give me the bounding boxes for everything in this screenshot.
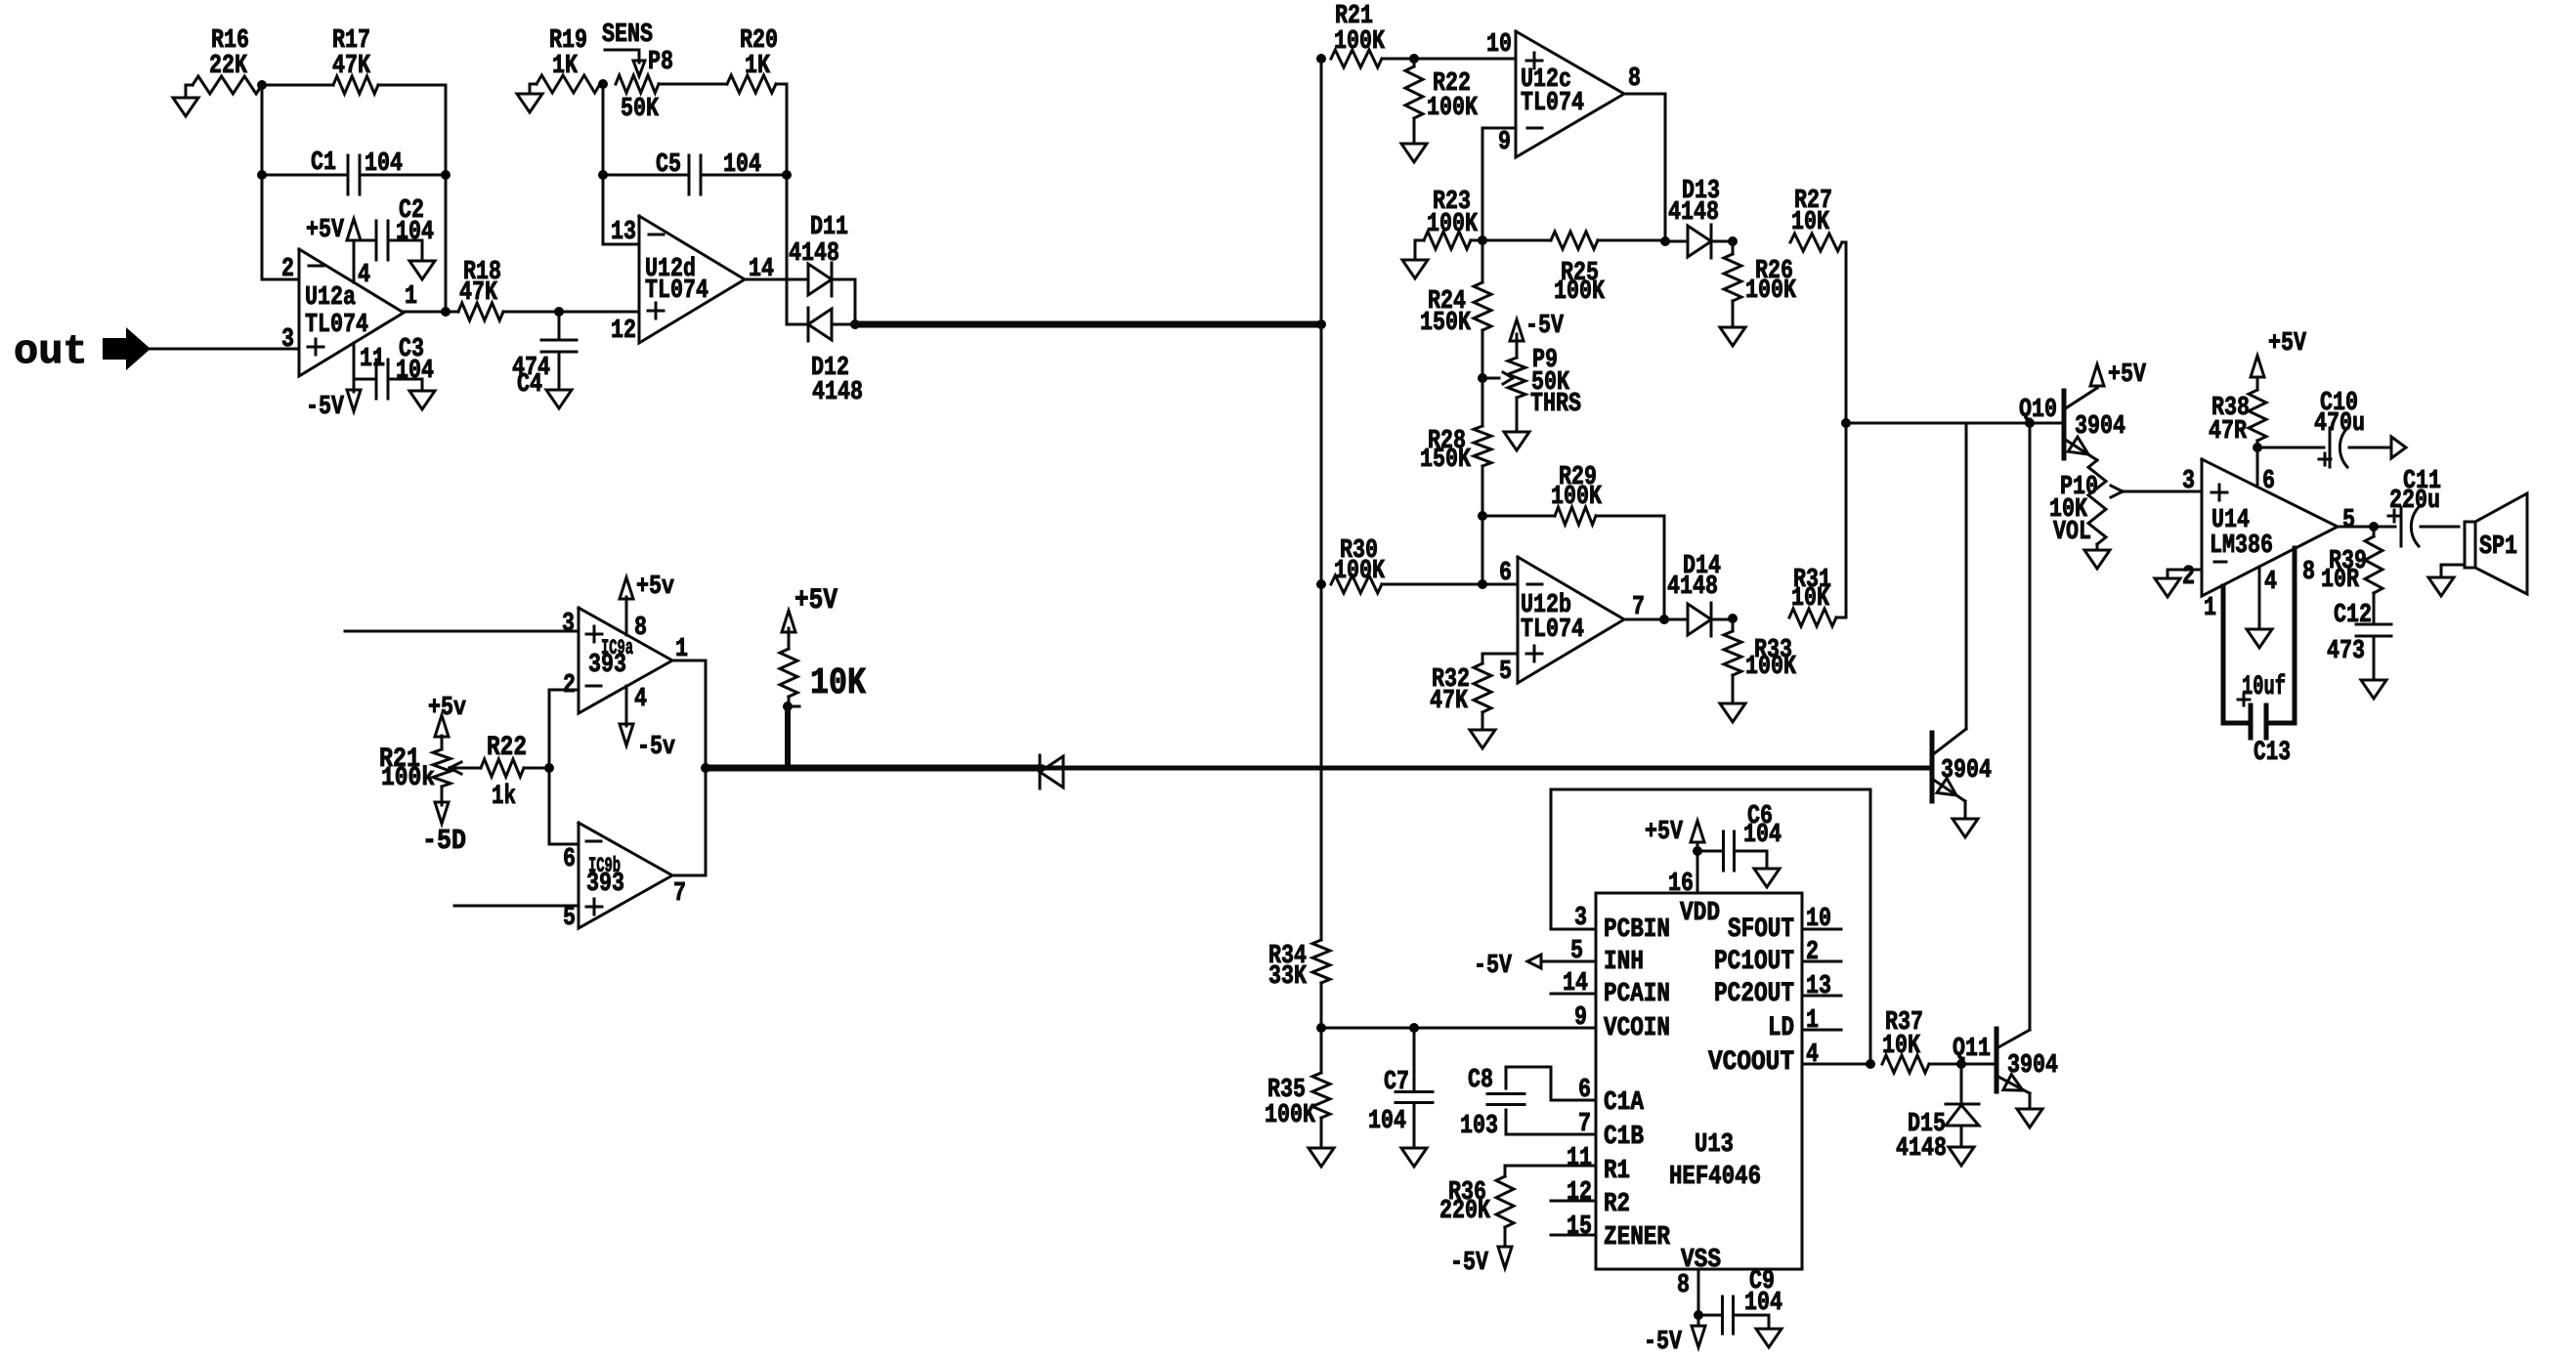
svg-text:2: 2 <box>281 255 294 284</box>
svg-text:100K: 100K <box>1745 277 1797 306</box>
svg-text:VCOOUT: VCOOUT <box>1708 1047 1794 1078</box>
wire U12c output <box>1624 94 1665 241</box>
svg-text:HEF4046: HEF4046 <box>1669 1163 1761 1192</box>
pin 2 PC1OUT stub <box>1802 938 1841 967</box>
svg-text:100K: 100K <box>1265 1101 1316 1130</box>
svg-text:13: 13 <box>611 218 636 247</box>
pin 6 C1A hook <box>1506 1067 1596 1105</box>
svg-text:7: 7 <box>1578 1110 1591 1139</box>
wire R16/R17 node <box>257 80 333 90</box>
node D13/R26/R27 <box>1728 236 1738 246</box>
ground at C4 <box>546 390 572 408</box>
svg-text:-5v: -5v <box>637 733 675 762</box>
capacitor C4 <box>512 312 577 400</box>
svg-text:-5D: -5D <box>422 825 466 857</box>
svg-text:11: 11 <box>360 345 385 374</box>
svg-text:33K: 33K <box>1268 962 1308 992</box>
ground at R33 <box>1720 703 1745 722</box>
svg-text:TL074: TL074 <box>1521 89 1584 118</box>
node D13 anode <box>1660 236 1670 246</box>
capacitor C6 <box>1697 802 1782 871</box>
svg-text:SP1: SP1 <box>2479 532 2517 562</box>
svg-text:10uf: 10uf <box>2242 672 2286 702</box>
svg-text:10K: 10K <box>1791 208 1830 237</box>
wire PCBIN feed line <box>1551 789 1870 1064</box>
svg-text:3: 3 <box>562 610 575 639</box>
svg-text:5: 5 <box>2342 506 2355 535</box>
svg-text:+5V: +5V <box>794 584 837 617</box>
node VCOOUT/R37 <box>1866 1059 1875 1069</box>
node VSS <box>1694 1310 1703 1320</box>
pin 5 INH stub <box>1541 937 1596 966</box>
svg-text:Q10: Q10 <box>2019 396 2057 425</box>
wire U14 output pin5 <box>2338 522 2395 532</box>
svg-text:103: 103 <box>1460 1112 1498 1141</box>
wire IC9a pin2 to pin6 <box>549 690 579 844</box>
svg-text:6: 6 <box>1578 1076 1591 1105</box>
ground at R35 <box>1309 1148 1334 1167</box>
ground at R23 <box>1402 260 1428 278</box>
resistor R32 <box>1430 654 1518 730</box>
pin 3 stub <box>1551 904 1596 933</box>
svg-text:D11: D11 <box>810 213 848 242</box>
+5v at IC9a <box>620 573 674 635</box>
resistor R30 <box>1316 536 1518 593</box>
ground at SP1 <box>2428 565 2465 596</box>
svg-text:TL074: TL074 <box>305 311 368 340</box>
-5V at INH <box>1474 952 1541 981</box>
svg-text:100K: 100K <box>1334 557 1386 586</box>
svg-text:104: 104 <box>1744 1289 1782 1318</box>
svg-text:10R: 10R <box>2321 566 2360 595</box>
diode D12 <box>787 308 863 407</box>
svg-text:16: 16 <box>1668 870 1694 899</box>
node comparator output <box>701 763 710 773</box>
svg-text:220u: 220u <box>2389 487 2440 516</box>
svg-text:14: 14 <box>1563 969 1588 999</box>
potentiometer R21 (100k) <box>379 736 451 805</box>
svg-text:PCBIN: PCBIN <box>1604 915 1670 945</box>
svg-text:THRS: THRS <box>1530 390 1581 419</box>
svg-text:473: 473 <box>2327 637 2365 666</box>
svg-text:10K: 10K <box>1791 584 1830 614</box>
diode D11 <box>789 213 855 324</box>
node R23/R25 <box>1471 235 1487 245</box>
pin 10 SFOUT stub <box>1802 905 1841 934</box>
wire Q11 emitter ground <box>2029 1093 2032 1109</box>
svg-text:VDD: VDD <box>1680 899 1720 928</box>
ground at R22b <box>1401 144 1427 162</box>
svg-text:C1: C1 <box>311 149 336 178</box>
svg-text:8: 8 <box>1677 1271 1690 1300</box>
svg-text:10: 10 <box>1806 905 1831 934</box>
svg-text:2: 2 <box>2182 563 2195 592</box>
transistor Q11 <box>1953 1029 2058 1093</box>
resistor R17 <box>332 26 378 94</box>
resistor R33 <box>1724 619 1797 703</box>
svg-text:104: 104 <box>723 150 761 180</box>
ground at P10 <box>2084 550 2110 569</box>
svg-text:SENS: SENS <box>602 21 653 50</box>
svg-text:4: 4 <box>358 261 370 290</box>
svg-text:C7: C7 <box>1384 1068 1409 1097</box>
ground at C9 <box>1756 1329 1782 1347</box>
svg-text:R2: R2 <box>1604 1190 1630 1219</box>
svg-text:4148: 4148 <box>812 378 863 407</box>
+5V at R38 <box>2251 329 2307 377</box>
node R28/R29 <box>1478 511 1487 521</box>
resistor R18 <box>458 258 503 320</box>
node P9 wiper <box>1478 373 1487 383</box>
svg-text:5: 5 <box>563 904 576 933</box>
svg-text:TL074: TL074 <box>645 277 708 306</box>
wire U12b output <box>1624 615 1669 624</box>
diode D14 <box>1664 552 1733 636</box>
svg-text:5: 5 <box>1570 937 1583 966</box>
wire U12a pin11 -5V <box>353 343 356 392</box>
pin 11 R1 stub <box>1505 1144 1596 1173</box>
wire P10 wiper to U14 pin3 <box>2123 490 2202 493</box>
op-amp U14 <box>2182 459 2355 623</box>
wire U14 pin4 ground <box>2258 567 2261 629</box>
svg-text:220K: 220K <box>1439 1197 1491 1226</box>
resistor R21b 100K <box>1331 2 1386 67</box>
ground at C3 <box>409 391 435 409</box>
resistor R38 <box>2209 379 2266 447</box>
wire U12d pin12 <box>559 311 639 314</box>
comparator IC9a <box>562 608 688 714</box>
svg-text:104: 104 <box>396 218 434 247</box>
svg-text:-5V: -5V <box>1474 952 1513 981</box>
svg-text:1k: 1k <box>492 782 516 812</box>
svg-text:104: 104 <box>1368 1107 1406 1136</box>
svg-text:150K: 150K <box>1420 309 1472 338</box>
svg-text:393: 393 <box>588 651 626 680</box>
wire U12d output <box>745 278 808 281</box>
pin 7 C1B hook <box>1506 1110 1596 1139</box>
svg-text:C1A: C1A <box>1604 1088 1645 1118</box>
pull-up resistor 10K <box>780 628 866 706</box>
capacitor C11 <box>2388 467 2459 546</box>
svg-text:R22: R22 <box>487 733 527 763</box>
node VCOIN tap <box>1316 983 1326 1073</box>
resistor R26 <box>1724 241 1797 327</box>
resistor R39 <box>2321 527 2383 595</box>
svg-text:470u: 470u <box>2314 409 2365 439</box>
svg-text:100K: 100K <box>1745 653 1797 682</box>
svg-text:104: 104 <box>365 149 403 179</box>
potentiometer P10 <box>2049 460 2123 550</box>
svg-text:11: 11 <box>1567 1144 1592 1173</box>
svg-text:6: 6 <box>1499 559 1512 588</box>
svg-text:SFOUT: SFOUT <box>1728 915 1794 945</box>
svg-text:47R: 47R <box>2209 417 2248 447</box>
svg-text:1K: 1K <box>552 52 579 81</box>
op-amp U12d <box>611 216 774 346</box>
transistor Q mid 3904 <box>1932 729 1992 801</box>
node Q11 base <box>1956 1059 1996 1069</box>
pin 12 R2 stub <box>1551 1178 1596 1208</box>
ground at R19 <box>517 84 542 112</box>
svg-text:47K: 47K <box>332 52 371 81</box>
wire rectified signal bus (thick) <box>855 319 1326 329</box>
pin 16 VDD stub <box>1668 851 1697 899</box>
wire main left bus vertical <box>1320 59 1323 940</box>
resistor R22b 100K <box>1405 59 1479 144</box>
wire U14 pin2 ground <box>2168 570 2202 578</box>
pin 4 VCOOUT stub <box>1802 1041 1870 1070</box>
wire divider chain R24 <box>1481 240 1484 282</box>
svg-text:7: 7 <box>673 879 686 909</box>
+5v at R21 <box>428 694 466 737</box>
op-amp U12b <box>1499 557 1645 687</box>
svg-text:50K: 50K <box>621 95 660 124</box>
capacitor C1 <box>257 149 451 194</box>
+5V at VDD <box>1645 818 1704 851</box>
resistor R36 <box>1439 1166 1514 1247</box>
wire U12a output node <box>404 307 458 317</box>
svg-text:100K: 100K <box>1334 27 1386 57</box>
svg-text:8: 8 <box>2302 558 2315 587</box>
svg-text:C1B: C1B <box>1604 1123 1644 1152</box>
-5V at VSS <box>1644 1315 1705 1357</box>
speaker SP1 <box>2465 493 2527 594</box>
wire input to IC9b pin5 <box>454 905 579 908</box>
capacitor C2 <box>354 196 434 261</box>
svg-text:2: 2 <box>1806 938 1819 967</box>
capacitor C13 gain loop <box>2223 548 2295 768</box>
resistor R28 <box>1420 378 1491 584</box>
svg-text:4148: 4148 <box>1896 1134 1947 1164</box>
svg-text:3: 3 <box>1574 904 1587 933</box>
resistor R37 <box>1882 1008 1961 1073</box>
capacitor C9 <box>1698 1267 1782 1334</box>
node R19/P8 <box>598 79 608 89</box>
svg-text:R1: R1 <box>1604 1157 1630 1186</box>
potentiometer P8 <box>602 21 673 124</box>
wire comparator output bus (thick) <box>706 765 1932 772</box>
comparator IC9b <box>563 823 686 933</box>
svg-text:U13: U13 <box>1695 1130 1734 1160</box>
svg-text:100k: 100k <box>381 764 435 793</box>
svg-text:9: 9 <box>1574 1003 1587 1033</box>
wire out to U12a pin3 <box>149 348 299 351</box>
node pull-up to bus <box>783 702 799 768</box>
node D14/R33/R31 <box>1728 614 1738 623</box>
svg-text:+5v: +5v <box>636 573 674 602</box>
svg-text:4: 4 <box>1806 1041 1819 1070</box>
svg-text:-5V: -5V <box>1525 312 1565 341</box>
svg-text:47K: 47K <box>459 278 498 308</box>
svg-text:3: 3 <box>281 325 294 355</box>
resistor R35 <box>1265 1073 1330 1148</box>
ground at U14 pin4 <box>2247 629 2272 648</box>
diode D13 <box>1665 177 1733 258</box>
-5D at R21 <box>422 802 466 857</box>
svg-text:100K: 100K <box>1427 210 1479 239</box>
svg-text:-5V: -5V <box>1644 1328 1683 1357</box>
wire R17 to output node <box>378 85 446 312</box>
wire R20 right vertical <box>776 84 787 324</box>
svg-text:C5: C5 <box>656 150 681 180</box>
svg-text:3: 3 <box>2182 467 2195 496</box>
svg-text:C4: C4 <box>517 370 542 400</box>
svg-text:10K: 10K <box>1882 1032 1921 1061</box>
wire summing node to Q10 base <box>1846 418 2064 428</box>
wire to Q11 collector vertical <box>2029 423 2032 1030</box>
svg-text:Q11: Q11 <box>1953 1035 1991 1064</box>
out label <box>14 328 88 375</box>
ground at C7 <box>1401 1148 1427 1167</box>
svg-text:+5v: +5v <box>428 694 466 723</box>
svg-text:104: 104 <box>396 357 434 386</box>
svg-text:100K: 100K <box>1554 277 1606 307</box>
svg-text:out: out <box>14 328 88 375</box>
pin 9 VCOIN stub <box>1322 1003 1596 1033</box>
resistor R20 <box>727 26 778 93</box>
resistor R16 <box>193 26 262 94</box>
svg-text:+5V: +5V <box>306 216 345 245</box>
node R22 junction <box>544 763 554 773</box>
svg-text:TL074: TL074 <box>1521 616 1584 645</box>
svg-text:393: 393 <box>586 870 624 899</box>
svg-text:-5V: -5V <box>306 393 345 422</box>
ground at C6 <box>1754 869 1780 887</box>
svg-text:1: 1 <box>405 282 417 312</box>
svg-text:LM386: LM386 <box>2210 532 2273 561</box>
capacitor C8 <box>1460 1066 1524 1141</box>
blocking diode on bus <box>1040 755 1063 788</box>
pin 1 LD stub <box>1802 1006 1841 1036</box>
resistor R27 <box>1790 187 1846 251</box>
svg-text:+5V: +5V <box>2108 361 2147 390</box>
wire U12c pin9 feedback <box>1482 128 1516 240</box>
svg-text:4148: 4148 <box>789 239 839 269</box>
svg-text:100K: 100K <box>1551 483 1603 512</box>
svg-text:4148: 4148 <box>1668 198 1719 228</box>
svg-text:PC1OUT: PC1OUT <box>1714 947 1794 977</box>
svg-text:5: 5 <box>1499 658 1512 687</box>
svg-text:VCOIN: VCOIN <box>1604 1014 1670 1043</box>
node comparator summing <box>1841 418 1851 428</box>
svg-text:13: 13 <box>1806 972 1831 1001</box>
wire input to IC9a pin3 <box>345 630 579 633</box>
capacitor C12 <box>2327 593 2391 680</box>
svg-text:47K: 47K <box>1430 687 1469 716</box>
pin 8 VSS stub <box>1677 1269 1698 1315</box>
ground at R26 <box>1720 327 1745 346</box>
ground at P9 <box>1504 432 1529 450</box>
pin 14 PCAIN stub <box>1551 969 1596 999</box>
wire U12d pin13 <box>603 84 639 244</box>
node bus top R21 <box>1316 54 1326 64</box>
svg-text:1: 1 <box>2204 594 2216 623</box>
wire R27 down to summing node <box>1845 242 1848 423</box>
capacitor C3 <box>354 335 434 399</box>
svg-text:+5V: +5V <box>1645 818 1684 847</box>
wire U12a pin4 +5V <box>353 240 356 282</box>
svg-text:8: 8 <box>1628 64 1641 94</box>
pin 15 ZENER stub <box>1551 1213 1596 1242</box>
svg-text:100K: 100K <box>1427 94 1479 123</box>
-5V at P9 <box>1510 312 1565 341</box>
svg-text:U12a: U12a <box>305 283 356 313</box>
resistor R24 <box>1420 282 1491 378</box>
wire inverting input vertical <box>262 85 299 279</box>
svg-text:15: 15 <box>1567 1213 1592 1242</box>
svg-text:C13: C13 <box>2254 738 2291 768</box>
-5v at IC9a <box>620 686 675 762</box>
resistor R29 <box>1482 463 1664 619</box>
wire P8 to R20 <box>659 83 727 86</box>
wire PCBIN to comparator line <box>1550 789 1553 929</box>
wire to mid transistor collector <box>1965 423 1968 729</box>
node VDD supply <box>1693 846 1702 856</box>
diode D15 <box>1896 1064 1979 1164</box>
svg-text:6: 6 <box>2262 467 2275 496</box>
svg-text:INH: INH <box>1604 948 1644 977</box>
resistor R25 <box>1482 232 1665 307</box>
wire U14 pin6 supply <box>2253 443 2262 487</box>
svg-text:3904: 3904 <box>1941 756 1992 786</box>
+5V at U12a <box>306 216 361 245</box>
capacitor C10 <box>2257 389 2390 467</box>
svg-text:12: 12 <box>611 317 636 346</box>
node rectifier output <box>850 319 860 329</box>
capacitor C5 <box>598 150 792 194</box>
op-amp U12a <box>281 249 417 376</box>
-5V at R36 <box>1450 1247 1512 1278</box>
svg-text:104: 104 <box>1743 821 1782 850</box>
svg-text:4: 4 <box>2264 568 2277 597</box>
transistor Q10 <box>2019 388 2125 460</box>
ground at mid transistor <box>1953 819 1978 837</box>
svg-text:+5V: +5V <box>2268 329 2307 359</box>
svg-text:-5V: -5V <box>1450 1249 1489 1278</box>
ground at C12 <box>2361 680 2386 699</box>
svg-text:4148: 4148 <box>1667 573 1718 602</box>
svg-text:3904: 3904 <box>2075 412 2125 442</box>
ground at U14 pin2 <box>2155 578 2180 597</box>
svg-text:PC2OUT: PC2OUT <box>1714 979 1794 1009</box>
+5V at Q10 collector <box>2090 361 2147 390</box>
resistor R19 <box>537 26 600 93</box>
svg-text:1K: 1K <box>745 52 771 81</box>
+5V at pull-up <box>782 584 837 632</box>
svg-text:PCAIN: PCAIN <box>1604 980 1670 1009</box>
wire R21 to U12c pin10 <box>1382 54 1516 64</box>
svg-text:4: 4 <box>634 685 647 714</box>
output arrow after C10 <box>2391 437 2406 458</box>
svg-text:2: 2 <box>563 671 576 701</box>
svg-text:10: 10 <box>1486 30 1512 60</box>
op-amp U12c <box>1486 30 1641 157</box>
svg-text:8: 8 <box>634 614 647 643</box>
svg-text:P8: P8 <box>648 48 673 77</box>
ground at R16 <box>173 85 198 116</box>
resistor R23 <box>1415 188 1479 260</box>
svg-text:ZENER: ZENER <box>1604 1223 1671 1253</box>
svg-text:22K: 22K <box>209 52 248 81</box>
input arrow (out) <box>103 327 150 370</box>
svg-text:150K: 150K <box>1420 446 1472 475</box>
pin 13 PC2OUT stub <box>1802 972 1841 1001</box>
svg-text:10K: 10K <box>810 662 866 704</box>
wire R18 to U12d pin12 <box>503 307 639 317</box>
ground at D15 <box>1949 1147 1974 1166</box>
wire mid transistor emitter ground <box>1964 801 1967 819</box>
svg-text:LD: LD <box>1768 1013 1794 1043</box>
